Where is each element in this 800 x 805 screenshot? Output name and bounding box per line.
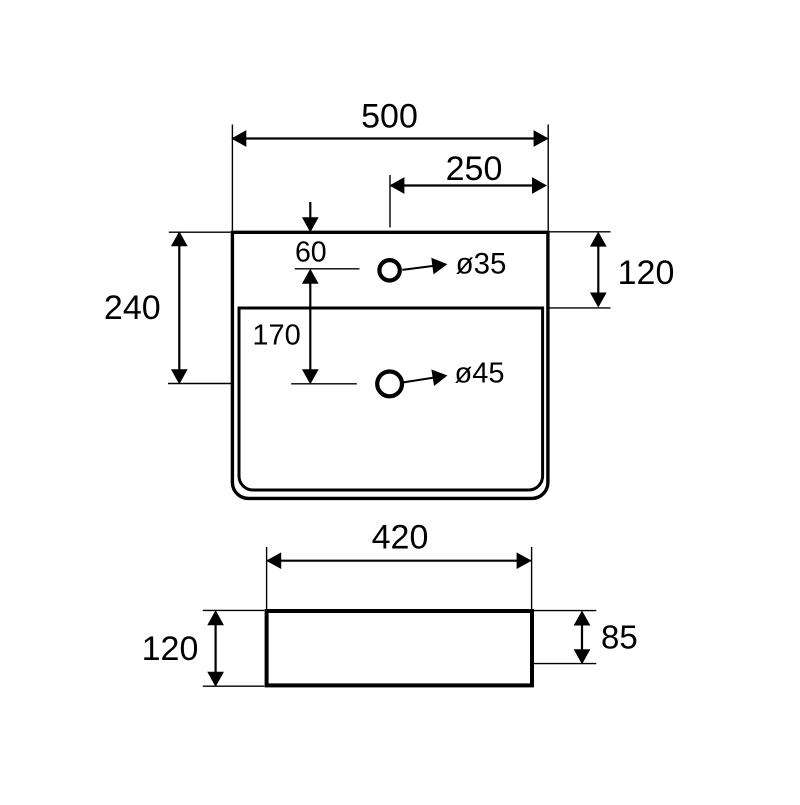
svg-text:500: 500 <box>361 98 418 136</box>
svg-text:420: 420 <box>372 519 429 557</box>
svg-text:ø45: ø45 <box>455 358 505 390</box>
svg-text:60: 60 <box>295 236 327 268</box>
svg-text:240: 240 <box>104 289 161 327</box>
svg-text:85: 85 <box>601 619 638 656</box>
svg-text:170: 170 <box>252 319 300 351</box>
svg-text:120: 120 <box>618 254 675 292</box>
svg-text:ø35: ø35 <box>456 248 507 281</box>
svg-text:120: 120 <box>142 630 199 668</box>
svg-text:250: 250 <box>446 150 503 188</box>
